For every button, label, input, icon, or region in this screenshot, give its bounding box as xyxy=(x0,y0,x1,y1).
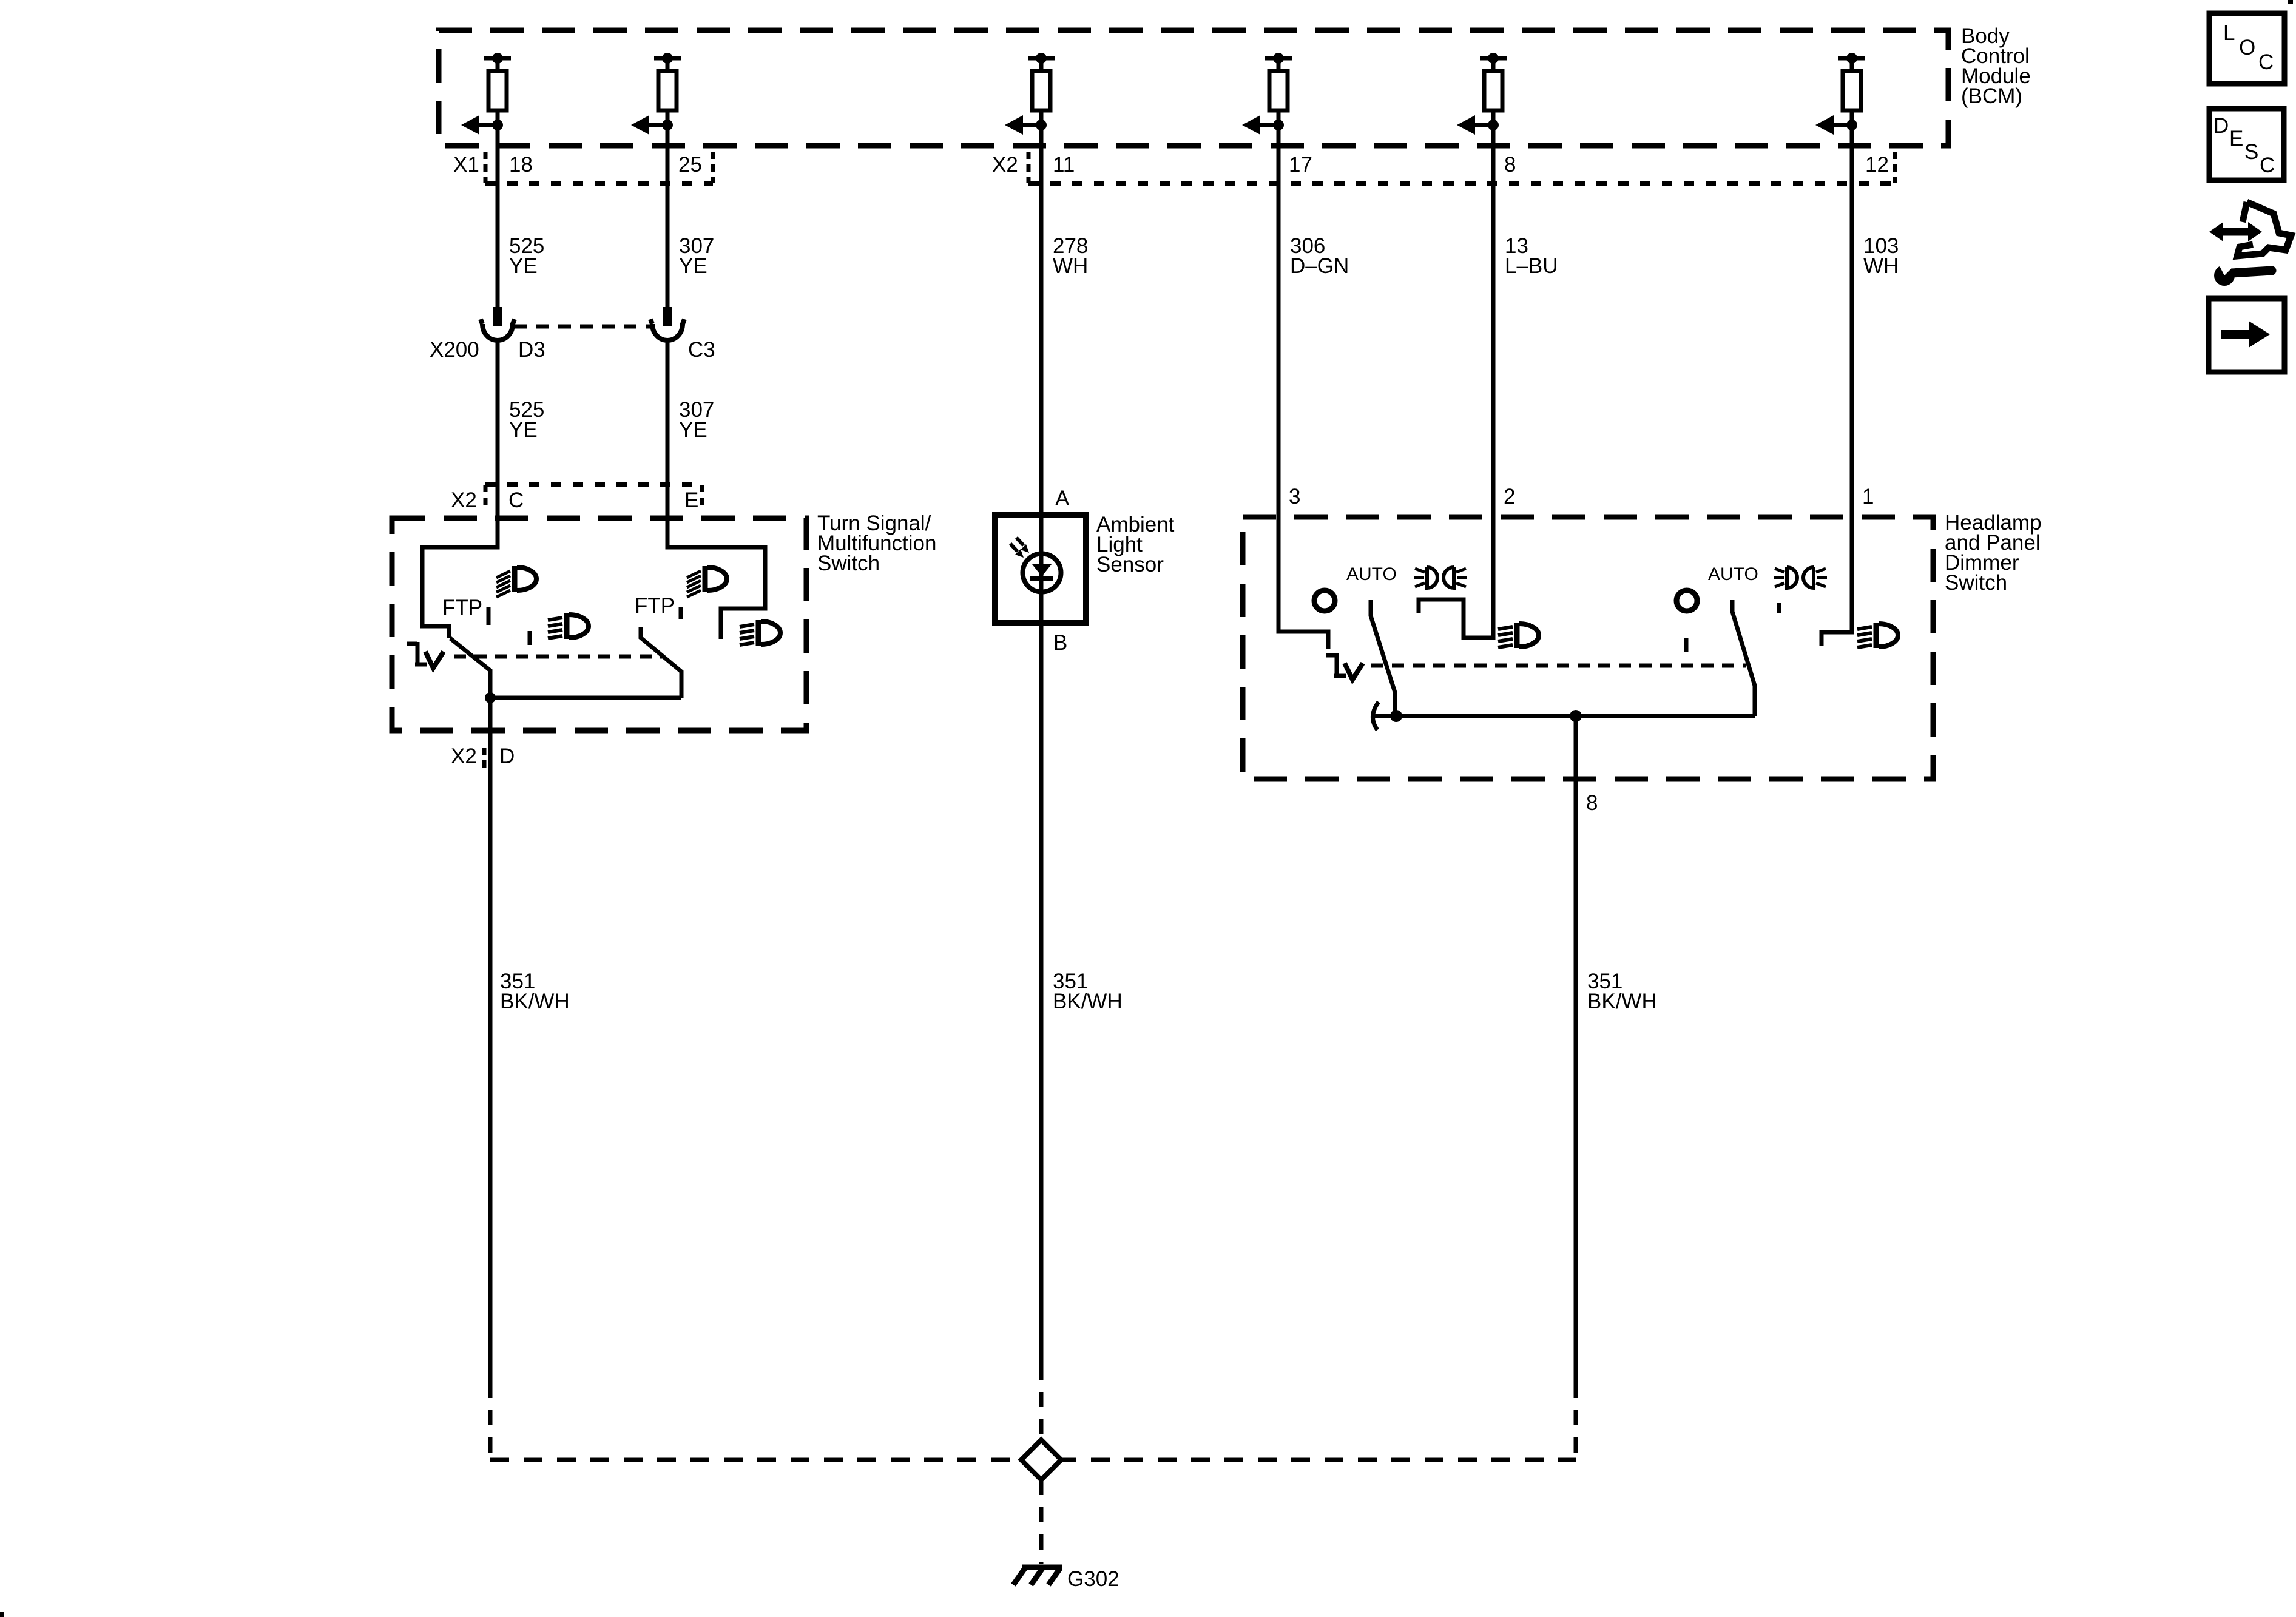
switch connector labels D xyxy=(451,744,515,768)
AUTO contact stub left xyxy=(1369,600,1373,616)
mechanical link dimmer xyxy=(1371,664,1746,668)
svg-text:WH: WH xyxy=(1863,254,1899,278)
junction pin 8 xyxy=(1570,710,1582,722)
low beam lamp icon right-pole xyxy=(740,620,780,646)
detent mark right beam xyxy=(1777,603,1781,613)
svg-text:8: 8 xyxy=(1504,153,1516,177)
left dimmer blade xyxy=(1371,616,1395,716)
wire pin 1 internal path xyxy=(1822,517,1852,646)
high beam lamp icon left-pole xyxy=(496,566,536,597)
wire 307 YE lower segment xyxy=(666,340,670,547)
right dimmer blade xyxy=(1732,612,1755,716)
svg-text:X2: X2 xyxy=(451,488,477,512)
svg-text:FTP: FTP xyxy=(635,594,675,618)
photodiode xyxy=(1010,538,1061,592)
dashed wire segment middle xyxy=(1039,1365,1044,1440)
high beam lamp icon right-pole xyxy=(687,566,727,597)
svg-text:18: 18 xyxy=(509,153,533,177)
LOC box xyxy=(2209,13,2284,84)
wire 13 L-BU (pin 8 to dimmer 2) xyxy=(1491,125,1496,517)
ground rail dashed xyxy=(490,1458,1576,1462)
svg-text:YE: YE xyxy=(509,254,538,278)
svg-text:YE: YE xyxy=(679,418,707,442)
switch connector labels C,E xyxy=(451,488,698,512)
Turn Signal/Multifunction Switch dashed box xyxy=(392,518,806,731)
svg-text:C: C xyxy=(508,488,524,512)
wire 525 YE lower segment xyxy=(496,340,500,547)
connector X2 dotted outline xyxy=(1028,152,1895,183)
BCM pin X1-18 driver xyxy=(461,53,511,135)
forward arrow box xyxy=(2209,299,2284,372)
svg-text:L–BU: L–BU xyxy=(1505,254,1558,278)
svg-text:BK/WH: BK/WH xyxy=(500,990,570,1013)
svg-text:C: C xyxy=(2260,154,2275,177)
svg-text:D–GN: D–GN xyxy=(1290,254,1349,278)
BCM pin X2-17 driver xyxy=(1242,53,1292,135)
connector X200 cavity D3 xyxy=(481,307,515,340)
connector X1 dotted outline xyxy=(485,152,713,183)
svg-text:B: B xyxy=(1053,631,1067,655)
svg-text:AUTO: AUTO xyxy=(1346,564,1397,584)
BCM pin X1-25 driver xyxy=(631,53,681,135)
BCM pin X2-11 driver xyxy=(1005,53,1055,135)
Body Control Module (BCM) dashed box xyxy=(439,30,1948,146)
dashed wire to ground xyxy=(1039,1480,1044,1564)
svg-text:Switch: Switch xyxy=(1945,571,2007,595)
svg-text:D: D xyxy=(499,744,515,768)
wire 307 YE (pin 25 to X200) xyxy=(666,125,670,307)
wire pin C internal path xyxy=(422,507,498,638)
sensor label xyxy=(1096,513,1175,576)
X200 tie line xyxy=(515,325,651,329)
momentary arc xyxy=(1373,702,1379,730)
junction blade pivot xyxy=(1390,710,1402,722)
pin 2 bracket contact + wire xyxy=(1419,517,1493,638)
svg-text:S: S xyxy=(2244,140,2258,164)
svg-text:17: 17 xyxy=(1289,153,1312,177)
svg-text:X200: X200 xyxy=(430,338,479,362)
page corner artifact bottom-left xyxy=(0,1612,4,1617)
low beam lamp icon dimmer-left xyxy=(1498,623,1539,648)
switch connector D dotted separator xyxy=(482,748,487,772)
svg-text:2: 2 xyxy=(1504,485,1515,508)
switch output bus xyxy=(490,696,681,700)
svg-text:11: 11 xyxy=(1053,153,1075,177)
svg-text:25: 25 xyxy=(678,153,702,177)
svg-text:AUTO: AUTO xyxy=(1708,564,1758,584)
AUTO contact stub right xyxy=(1730,600,1735,612)
detent mark right park xyxy=(1684,638,1689,652)
detent mark left low xyxy=(528,631,532,645)
splice diamond S302 xyxy=(1021,1440,1061,1480)
left switch blade (closed) xyxy=(450,638,490,698)
svg-text:C: C xyxy=(2258,50,2274,74)
diagnostic icon (connector + double arrow + wrench) xyxy=(2209,202,2291,286)
wire 306 D-GN (pin 17 to dimmer 3) xyxy=(1277,125,1281,517)
svg-text:BK/WH: BK/WH xyxy=(1053,990,1123,1013)
dashed wire segment left xyxy=(488,1383,493,1457)
park position circle left xyxy=(1314,590,1335,611)
cam symbol turn switch xyxy=(407,642,444,668)
low beam lamp icon dimmer-right xyxy=(1857,623,1898,648)
dimmer connector pin labels 3,2,1 xyxy=(1289,485,1874,508)
svg-text:1: 1 xyxy=(1862,485,1874,508)
svg-text:D3: D3 xyxy=(518,338,545,362)
BCM label xyxy=(1961,24,2031,108)
wire 278 WH (pin 11 to sensor A and beyond) xyxy=(1039,125,1044,1365)
svg-text:FTP: FTP xyxy=(442,596,482,619)
svg-text:A: A xyxy=(1055,487,1070,510)
svg-text:Switch: Switch xyxy=(817,552,880,575)
svg-text:3: 3 xyxy=(1289,485,1300,508)
connector X1 labels xyxy=(453,153,702,177)
svg-text:BK/WH: BK/WH xyxy=(1587,990,1657,1013)
BCM pin X2-8 driver xyxy=(1457,53,1507,135)
wire 103 WH (pin 12 to dimmer 1) xyxy=(1850,125,1854,517)
cam symbol dimmer switch xyxy=(1326,653,1363,680)
park position circle right xyxy=(1676,590,1697,611)
right switch blade (open) xyxy=(641,627,681,698)
wire pin E internal path xyxy=(667,507,765,639)
X200 labels xyxy=(430,338,715,362)
wire pin D (351 BK/WH) xyxy=(488,698,493,1383)
svg-text:12: 12 xyxy=(1865,153,1889,177)
svg-text:8: 8 xyxy=(1586,791,1598,815)
Ambient Light Sensor box xyxy=(995,515,1086,623)
svg-text:(BCM): (BCM) xyxy=(1961,84,2022,108)
mechanical link turn switch xyxy=(454,655,663,659)
svg-text:X2: X2 xyxy=(451,744,477,768)
svg-text:X2: X2 xyxy=(992,153,1018,177)
dashed wire segment right xyxy=(1574,1383,1578,1457)
svg-text:E: E xyxy=(2229,127,2243,150)
headlamp-on icon right xyxy=(1774,567,1827,588)
switch label xyxy=(817,511,936,575)
svg-text:L: L xyxy=(2223,21,2235,45)
dimmer label xyxy=(1945,511,2042,595)
svg-text:O: O xyxy=(2239,36,2255,59)
svg-text:YE: YE xyxy=(509,418,538,442)
headlamp-on icon left xyxy=(1414,567,1467,588)
BCM pin X2-12 driver xyxy=(1815,53,1865,135)
connector X2 labels xyxy=(992,153,1889,177)
svg-text:C3: C3 xyxy=(688,338,715,362)
svg-text:X1: X1 xyxy=(453,153,479,177)
detent mark right FTP xyxy=(679,607,683,619)
switch connector X2 dotted outline (pins C,E) xyxy=(485,485,702,508)
page corner artifact top-right xyxy=(2288,0,2293,4)
junction node D xyxy=(485,692,496,703)
svg-text:D: D xyxy=(2213,114,2229,138)
svg-text:Sensor: Sensor xyxy=(1096,553,1164,576)
Headlamp and Panel Dimmer Switch dashed box xyxy=(1243,517,1933,779)
svg-text:G302: G302 xyxy=(1067,1567,1119,1591)
dimmer output bus xyxy=(1373,714,1755,718)
svg-text:YE: YE xyxy=(679,254,707,278)
svg-text:E: E xyxy=(684,488,698,512)
svg-text:WH: WH xyxy=(1053,254,1088,278)
wire pin 8 (351 BK/WH) xyxy=(1574,716,1578,1383)
ground symbol G302 xyxy=(1013,1567,1062,1585)
wire 525 YE (pin 18 to X200) xyxy=(496,125,500,307)
wire pin 3 internal path (park contact) xyxy=(1278,517,1328,649)
detent mark left FTP xyxy=(487,607,491,625)
connector X200 cavity C3 xyxy=(650,307,684,340)
DESC box xyxy=(2209,109,2284,180)
low beam lamp icon left-pole xyxy=(548,613,589,639)
